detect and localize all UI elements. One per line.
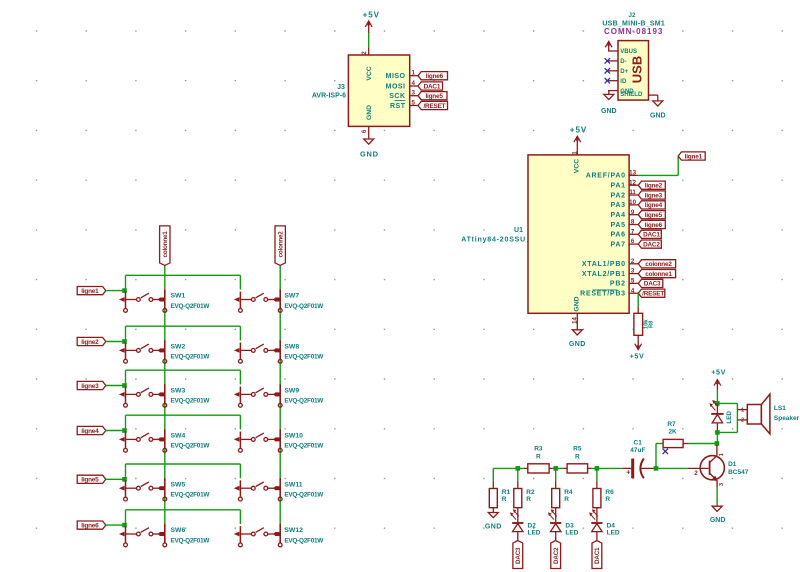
svg-text:SW5: SW5 [171, 481, 186, 488]
svg-text:R: R [502, 496, 507, 503]
svg-text:EVQ-Q2F01W: EVQ-Q2F01W [171, 537, 211, 544]
svg-text:USB: USB [629, 56, 644, 83]
svg-text:R8: R8 [648, 320, 654, 328]
svg-text:D3: D3 [565, 522, 574, 529]
svg-text:colonne1: colonne1 [645, 271, 672, 278]
svg-text:EVQ-Q2F01W: EVQ-Q2F01W [284, 537, 324, 544]
svg-text:ligne3: ligne3 [645, 192, 663, 199]
svg-text:5: 5 [411, 99, 415, 106]
svg-text:SW10: SW10 [284, 433, 303, 440]
svg-text:D4: D4 [607, 522, 616, 529]
svg-text:14: 14 [572, 317, 578, 324]
svg-text:LS1: LS1 [774, 405, 786, 412]
svg-text:ligne5: ligne5 [645, 212, 663, 219]
svg-text:GND: GND [569, 341, 586, 348]
svg-text:2: 2 [741, 418, 744, 424]
svg-text:D2: D2 [528, 522, 537, 529]
svg-text:Speaker: Speaker [774, 415, 800, 422]
svg-text:R5: R5 [573, 446, 582, 453]
svg-text:SW1: SW1 [171, 293, 186, 300]
svg-text:R3: R3 [534, 446, 543, 453]
svg-text:3: 3 [411, 90, 415, 97]
svg-text:EVQ-Q2F01W: EVQ-Q2F01W [171, 492, 211, 499]
svg-text:DAC1: DAC1 [643, 232, 660, 239]
svg-text:6: 6 [631, 238, 635, 245]
svg-text:colonne1: colonne1 [162, 231, 169, 258]
svg-text:SW9: SW9 [284, 388, 299, 395]
svg-text:SW6: SW6 [171, 527, 186, 534]
svg-text:PB2: PB2 [610, 281, 626, 288]
svg-text:12: 12 [629, 179, 636, 186]
svg-text:/RESET: /RESET [642, 291, 664, 298]
svg-text:J3: J3 [337, 84, 345, 91]
svg-text:EVQ-Q2F01W: EVQ-Q2F01W [284, 303, 324, 310]
svg-text:2: 2 [631, 258, 635, 265]
svg-text:ligne6: ligne6 [81, 522, 99, 529]
svg-text:R: R [536, 454, 541, 461]
svg-text:ligne5: ligne5 [81, 477, 99, 484]
svg-text:AVR-ISP-6: AVR-ISP-6 [312, 93, 346, 100]
svg-text:PA2: PA2 [610, 192, 625, 199]
svg-text:D-: D- [620, 59, 626, 65]
svg-text:13: 13 [629, 170, 636, 177]
svg-text:VCC: VCC [573, 159, 580, 173]
svg-text:4: 4 [411, 80, 415, 87]
svg-text:SW8: SW8 [284, 344, 299, 351]
svg-text:EVQ-Q2F01W: EVQ-Q2F01W [284, 398, 324, 405]
svg-text:R2: R2 [526, 489, 535, 496]
svg-text:U1: U1 [514, 227, 523, 234]
svg-text:8: 8 [631, 219, 635, 226]
svg-text:MISO: MISO [386, 73, 406, 80]
svg-text:R6: R6 [605, 489, 614, 496]
svg-text:+5V: +5V [711, 367, 726, 376]
svg-text:DAC2: DAC2 [643, 241, 660, 248]
svg-text:ligne6: ligne6 [426, 73, 444, 80]
svg-text:DAC1: DAC1 [424, 83, 441, 90]
svg-text:DAC3: DAC3 [515, 547, 522, 564]
svg-text:DAC3: DAC3 [644, 281, 661, 288]
svg-text:GND: GND [710, 517, 726, 524]
svg-text:VCC: VCC [366, 66, 373, 80]
svg-text:PA7: PA7 [610, 241, 625, 248]
svg-text:XTAL2/PB1: XTAL2/PB1 [582, 271, 626, 278]
svg-text:COMN-08193: COMN-08193 [604, 27, 663, 36]
svg-text:LED: LED [607, 530, 620, 537]
svg-text:+: + [626, 468, 631, 477]
svg-text:ligne3: ligne3 [81, 383, 99, 390]
svg-text:DAC2: DAC2 [553, 547, 560, 564]
svg-text:PA1: PA1 [610, 183, 625, 190]
svg-text:EVQ-Q2F01W: EVQ-Q2F01W [284, 443, 324, 450]
svg-text:SW11: SW11 [284, 481, 302, 488]
svg-text:ligne2: ligne2 [81, 339, 99, 346]
svg-text:ATtiny84-20SSU: ATtiny84-20SSU [461, 237, 526, 244]
svg-text:R4: R4 [564, 489, 573, 496]
svg-text:AREF/PA0: AREF/PA0 [586, 173, 626, 180]
svg-text:R7: R7 [667, 421, 676, 428]
svg-text:GND: GND [485, 524, 502, 531]
svg-text:R: R [605, 496, 610, 503]
svg-text:D+: D+ [620, 69, 628, 75]
svg-text:5: 5 [631, 278, 635, 285]
svg-text:D1: D1 [728, 461, 737, 468]
svg-text:PA6: PA6 [610, 232, 625, 239]
svg-text:C1: C1 [634, 439, 643, 446]
svg-text:ligne4: ligne4 [81, 428, 99, 435]
svg-text:VBUS: VBUS [620, 49, 637, 55]
svg-text:GND: GND [601, 108, 617, 115]
svg-text:R: R [575, 454, 580, 461]
svg-text:SCK: SCK [389, 93, 405, 100]
svg-text:BC547: BC547 [728, 469, 749, 476]
svg-text:+5V: +5V [570, 126, 587, 135]
svg-text:DAC1: DAC1 [594, 547, 601, 564]
svg-text:LED: LED [726, 411, 733, 424]
svg-text:colonne2: colonne2 [278, 231, 285, 258]
svg-text:PA5: PA5 [610, 222, 625, 229]
svg-text:SW7: SW7 [284, 293, 299, 300]
svg-text:+5V: +5V [630, 351, 645, 360]
svg-text:ligne1: ligne1 [81, 288, 99, 295]
svg-text:/RESET: /RESET [423, 103, 445, 110]
svg-text:MOSI: MOSI [386, 83, 406, 90]
svg-text:2K: 2K [668, 429, 677, 436]
svg-text:GND: GND [573, 296, 580, 311]
svg-text:XTAL1/PB0: XTAL1/PB0 [582, 261, 626, 268]
svg-text:PA3: PA3 [610, 202, 625, 209]
svg-text:11: 11 [629, 189, 636, 196]
svg-text:47uF: 47uF [630, 447, 645, 454]
svg-text:+5V: +5V [363, 11, 380, 20]
svg-text:EVQ-Q2F01W: EVQ-Q2F01W [171, 303, 211, 310]
svg-text:1: 1 [411, 70, 415, 77]
svg-text:RST: RST [390, 103, 406, 110]
svg-text:1: 1 [741, 407, 744, 413]
svg-text:ID: ID [620, 79, 627, 85]
svg-text:GND: GND [360, 150, 379, 159]
svg-text:3: 3 [631, 268, 635, 275]
svg-text:PA4: PA4 [610, 212, 625, 219]
svg-text:ligne1: ligne1 [685, 153, 703, 160]
svg-text:EVQ-Q2F01W: EVQ-Q2F01W [284, 354, 324, 361]
svg-text:ligne6: ligne6 [645, 222, 663, 229]
svg-text:SW4: SW4 [171, 433, 186, 440]
svg-text:EVQ-Q2F01W: EVQ-Q2F01W [171, 443, 211, 450]
svg-text:SW2: SW2 [171, 344, 186, 351]
svg-text:colonne2: colonne2 [645, 261, 672, 268]
svg-text:LED: LED [565, 530, 578, 537]
svg-text:R1: R1 [502, 489, 511, 496]
svg-text:SW12: SW12 [284, 527, 303, 534]
svg-text:LED: LED [528, 530, 541, 537]
svg-text:EVQ-Q2F01W: EVQ-Q2F01W [171, 398, 211, 405]
svg-text:R: R [526, 496, 531, 503]
svg-text:EVQ-Q2F01W: EVQ-Q2F01W [171, 354, 211, 361]
svg-text:ligne2: ligne2 [645, 183, 663, 190]
svg-text:SW3: SW3 [171, 388, 186, 395]
svg-text:ligne4: ligne4 [645, 202, 663, 209]
svg-text:GND: GND [366, 105, 373, 120]
svg-text:9: 9 [631, 209, 635, 216]
svg-text:EVQ-Q2F01W: EVQ-Q2F01W [284, 492, 324, 499]
svg-text:R: R [564, 496, 569, 503]
svg-text:SHIELD: SHIELD [620, 92, 643, 98]
svg-text:4: 4 [631, 287, 635, 294]
svg-text:J2: J2 [629, 12, 636, 19]
svg-text:7: 7 [631, 228, 635, 235]
svg-text:RESET/PB3: RESET/PB3 [580, 291, 626, 298]
svg-text:ligne5: ligne5 [425, 93, 443, 100]
svg-text:10: 10 [629, 199, 636, 206]
svg-text:GND: GND [650, 112, 666, 119]
